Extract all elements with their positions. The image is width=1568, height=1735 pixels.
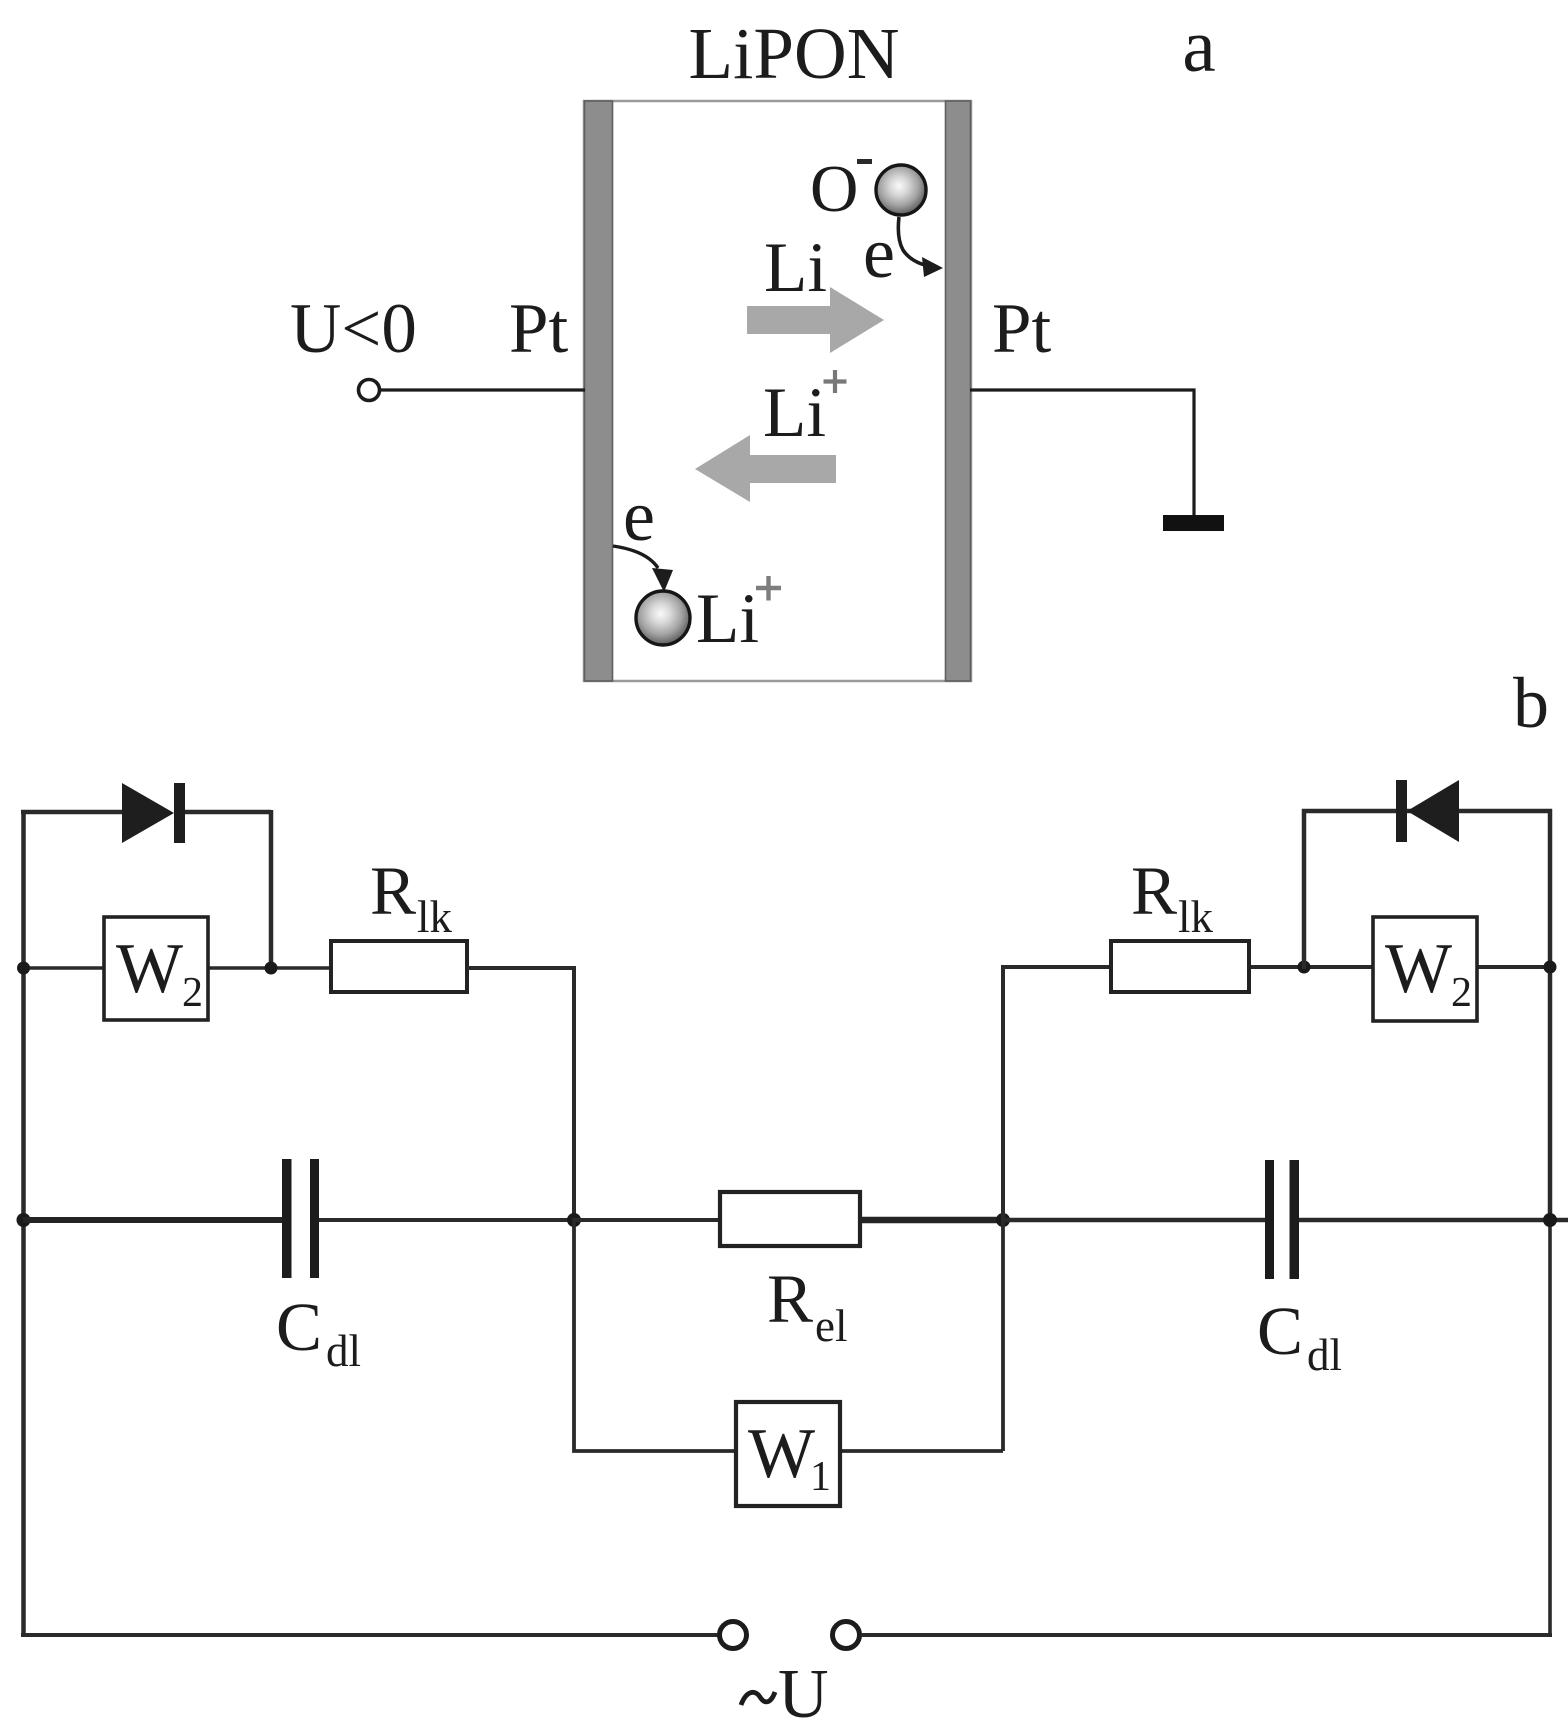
svg-text:b: b [1513, 663, 1549, 743]
node diode junction left [265, 962, 278, 975]
wire diode D1 branch left [21, 810, 271, 968]
svg-text:R: R [370, 853, 416, 929]
diode D2 (right, pointing left) [1396, 780, 1407, 842]
svg-text:U: U [778, 1656, 829, 1733]
resistor Rel box [720, 1192, 860, 1246]
svg-text:LiPON: LiPON [689, 13, 900, 94]
svg-text:R: R [1131, 853, 1177, 929]
svg-text:Li: Li [696, 580, 759, 658]
terminal source left (open circle) [720, 1622, 747, 1649]
capacitor Cdl right plates [1265, 1160, 1274, 1279]
svg-text:lk: lk [1178, 892, 1214, 942]
svg-text:C: C [1257, 1293, 1303, 1369]
terminal source right (open circle) [833, 1622, 860, 1649]
svg-text:Li: Li [763, 374, 826, 452]
wire diode D2 branch right [1304, 811, 1552, 969]
warburg W2 left box [104, 917, 208, 1020]
svg-text:R: R [767, 1261, 813, 1337]
svg-text:W: W [1385, 930, 1452, 1008]
electron transfer arrow top (e to right electrode) [898, 217, 929, 266]
wire W1 branch [574, 1218, 1003, 1451]
svg-text:1: 1 [810, 1454, 831, 1500]
svg-text:C: C [276, 1289, 322, 1365]
svg-text:lk: lk [417, 892, 453, 942]
svg-text:e: e [623, 476, 655, 556]
ground [1163, 515, 1224, 531]
svg-text:dl: dl [1307, 1330, 1342, 1380]
wire main line thick left [23, 1217, 282, 1223]
warburg W2 right box [1373, 917, 1477, 1021]
svg-text:U<0: U<0 [290, 290, 417, 368]
label ~U (AC source) [741, 1692, 775, 1705]
svg-text:Pt: Pt [992, 290, 1051, 368]
svg-text:Li: Li [764, 229, 827, 307]
electrode left Pt bar [585, 101, 613, 681]
node center-left junction [567, 1213, 581, 1227]
diode D1 (left, pointing right) [122, 783, 174, 843]
svg-text:el: el [815, 1301, 847, 1351]
node right rail / W2 branch [1544, 961, 1557, 974]
svg-text:Pt: Pt [509, 290, 568, 368]
node left rail / main line [17, 1213, 31, 1227]
wire U terminal to left electrode [381, 388, 586, 391]
wire bottom rail right [861, 1633, 1552, 1637]
arrow Li right (gray) [747, 287, 884, 353]
ion ball Li [636, 591, 690, 645]
wire main line to right capacitor [1003, 1218, 1265, 1223]
wire Rlk left to corner [467, 966, 574, 1220]
svg-text:O: O [810, 152, 858, 226]
wire Rlk right branch [1003, 967, 1550, 1222]
wire W2 left branch [23, 966, 331, 970]
svg-text:2: 2 [1451, 970, 1472, 1016]
wire left rail [21, 810, 26, 1637]
ion ball O [876, 165, 926, 215]
node diode junction right [1298, 961, 1311, 974]
capacitor Cdl left plates [282, 1159, 292, 1278]
svg-text:W: W [748, 1415, 815, 1493]
node left rail / W2 branch [17, 962, 30, 975]
wire bottom rail left [21, 1633, 719, 1637]
electron transfer arrow bottom (left electrode to Li+) [613, 546, 658, 568]
svg-text:2: 2 [182, 970, 203, 1016]
node center-right junction [996, 1213, 1010, 1227]
warburg W1 box [736, 1402, 840, 1506]
terminal U (open circle) [359, 380, 380, 401]
svg-text:e: e [863, 213, 895, 293]
wire to Rel [574, 1218, 720, 1222]
wire main line thick right of Rel [860, 1217, 1003, 1224]
wire main line center-left [319, 1218, 574, 1222]
wire right rail [1548, 809, 1553, 1220]
arrow Li+ left (gray) [695, 435, 836, 502]
node right rail / main line [1543, 1213, 1557, 1227]
resistor Rlk left box [331, 941, 467, 992]
LiPON cell body [584, 101, 971, 681]
svg-text:a: a [1182, 5, 1215, 88]
svg-text:dl: dl [326, 1326, 361, 1376]
electrode right Pt bar [946, 101, 971, 681]
wire main line right to rail [1299, 1218, 1568, 1223]
wire right electrode to ground [970, 390, 1194, 517]
svg-text:W: W [116, 930, 183, 1008]
resistor Rlk right box [1111, 941, 1249, 992]
